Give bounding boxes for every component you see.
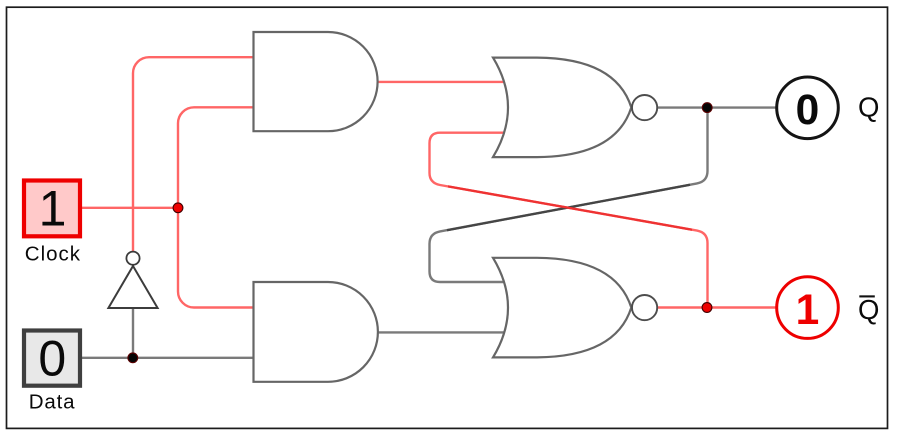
wire Clock output — [82, 207, 178, 209]
NOR gate N1 output bubble — [632, 95, 657, 120]
wire clock node to AND1 lower input — [178, 107, 253, 208]
wire feedback NOR1 output to NOR2 upper input — [430, 108, 708, 282]
junction Q node — [702, 103, 712, 113]
AND gate A2 — [254, 282, 378, 382]
junction clock node — [173, 203, 183, 213]
NOR gate N1 body — [493, 58, 631, 158]
output Q circle — [777, 77, 839, 139]
svg-text:1: 1 — [39, 181, 67, 237]
svg-text:Data: Data — [29, 391, 76, 414]
NOR gate N2 body — [493, 258, 631, 358]
wire NOR2 output to Qbar node — [657, 306, 776, 308]
svg-text:0: 0 — [796, 87, 820, 134]
inverter output bubble — [126, 252, 139, 265]
inverter NOT gate triangle — [108, 266, 157, 308]
svg-text:1: 1 — [796, 287, 820, 334]
input Data box — [24, 331, 80, 386]
label Qbar overbar — [859, 295, 875, 297]
svg-text:Q: Q — [858, 294, 879, 325]
NOR gate N2 output bubble — [632, 295, 657, 320]
wire feedback NOR2 diagonal segment (darker) — [448, 186, 692, 229]
wire clock node to AND2 upper input — [178, 208, 253, 308]
svg-text:Clock: Clock — [25, 243, 81, 266]
output Qbar circle — [777, 277, 839, 339]
wire feedback NOR1 diagonal segment (darker) — [447, 185, 690, 230]
wire NOR1 output to Q node — [657, 106, 776, 108]
junction Qbar node — [702, 303, 712, 313]
AND gate A1 — [254, 32, 378, 131]
wire AND1 output to NOR1 upper input — [378, 81, 507, 83]
wire data node to inverter input — [132, 307, 134, 358]
svg-text:0: 0 — [38, 330, 66, 386]
junction data node — [128, 353, 138, 363]
svg-text:Q: Q — [858, 91, 879, 122]
wire Data output — [82, 357, 253, 359]
wire inverter output to AND1 upper input — [133, 57, 253, 251]
wire feedback NOR2 output to NOR1 lower input — [430, 133, 708, 308]
input Clock box — [24, 181, 80, 237]
wire AND2 output to NOR2 lower input — [378, 331, 507, 333]
